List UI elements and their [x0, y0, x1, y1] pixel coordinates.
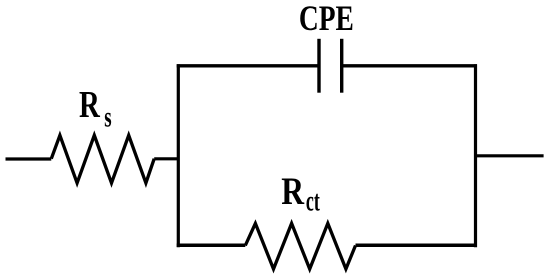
wire bottom branch left segment: [177, 243, 246, 247]
wire right vertical (node B branch): [474, 64, 477, 247]
svg-text:s: s: [104, 101, 112, 133]
capacitor CPE: [319, 39, 342, 93]
wire right lead: [476, 154, 544, 157]
wire bottom branch right segment: [356, 243, 478, 247]
resistor Rct: [245, 223, 355, 269]
wire left vertical (node A branch): [177, 64, 180, 247]
wire left lead: [6, 157, 52, 160]
wire top branch right segment: [342, 64, 477, 67]
resistor Rs: [51, 135, 154, 183]
svg-text:CPE: CPE: [299, 0, 354, 38]
svg-text:R: R: [281, 168, 305, 212]
svg-text:R: R: [79, 84, 100, 126]
label Rs: [79, 84, 112, 133]
wire Rs to node A: [154, 157, 179, 160]
wire top branch left segment: [177, 64, 319, 67]
label Rct: [281, 168, 320, 218]
svg-text:ct: ct: [306, 185, 320, 218]
